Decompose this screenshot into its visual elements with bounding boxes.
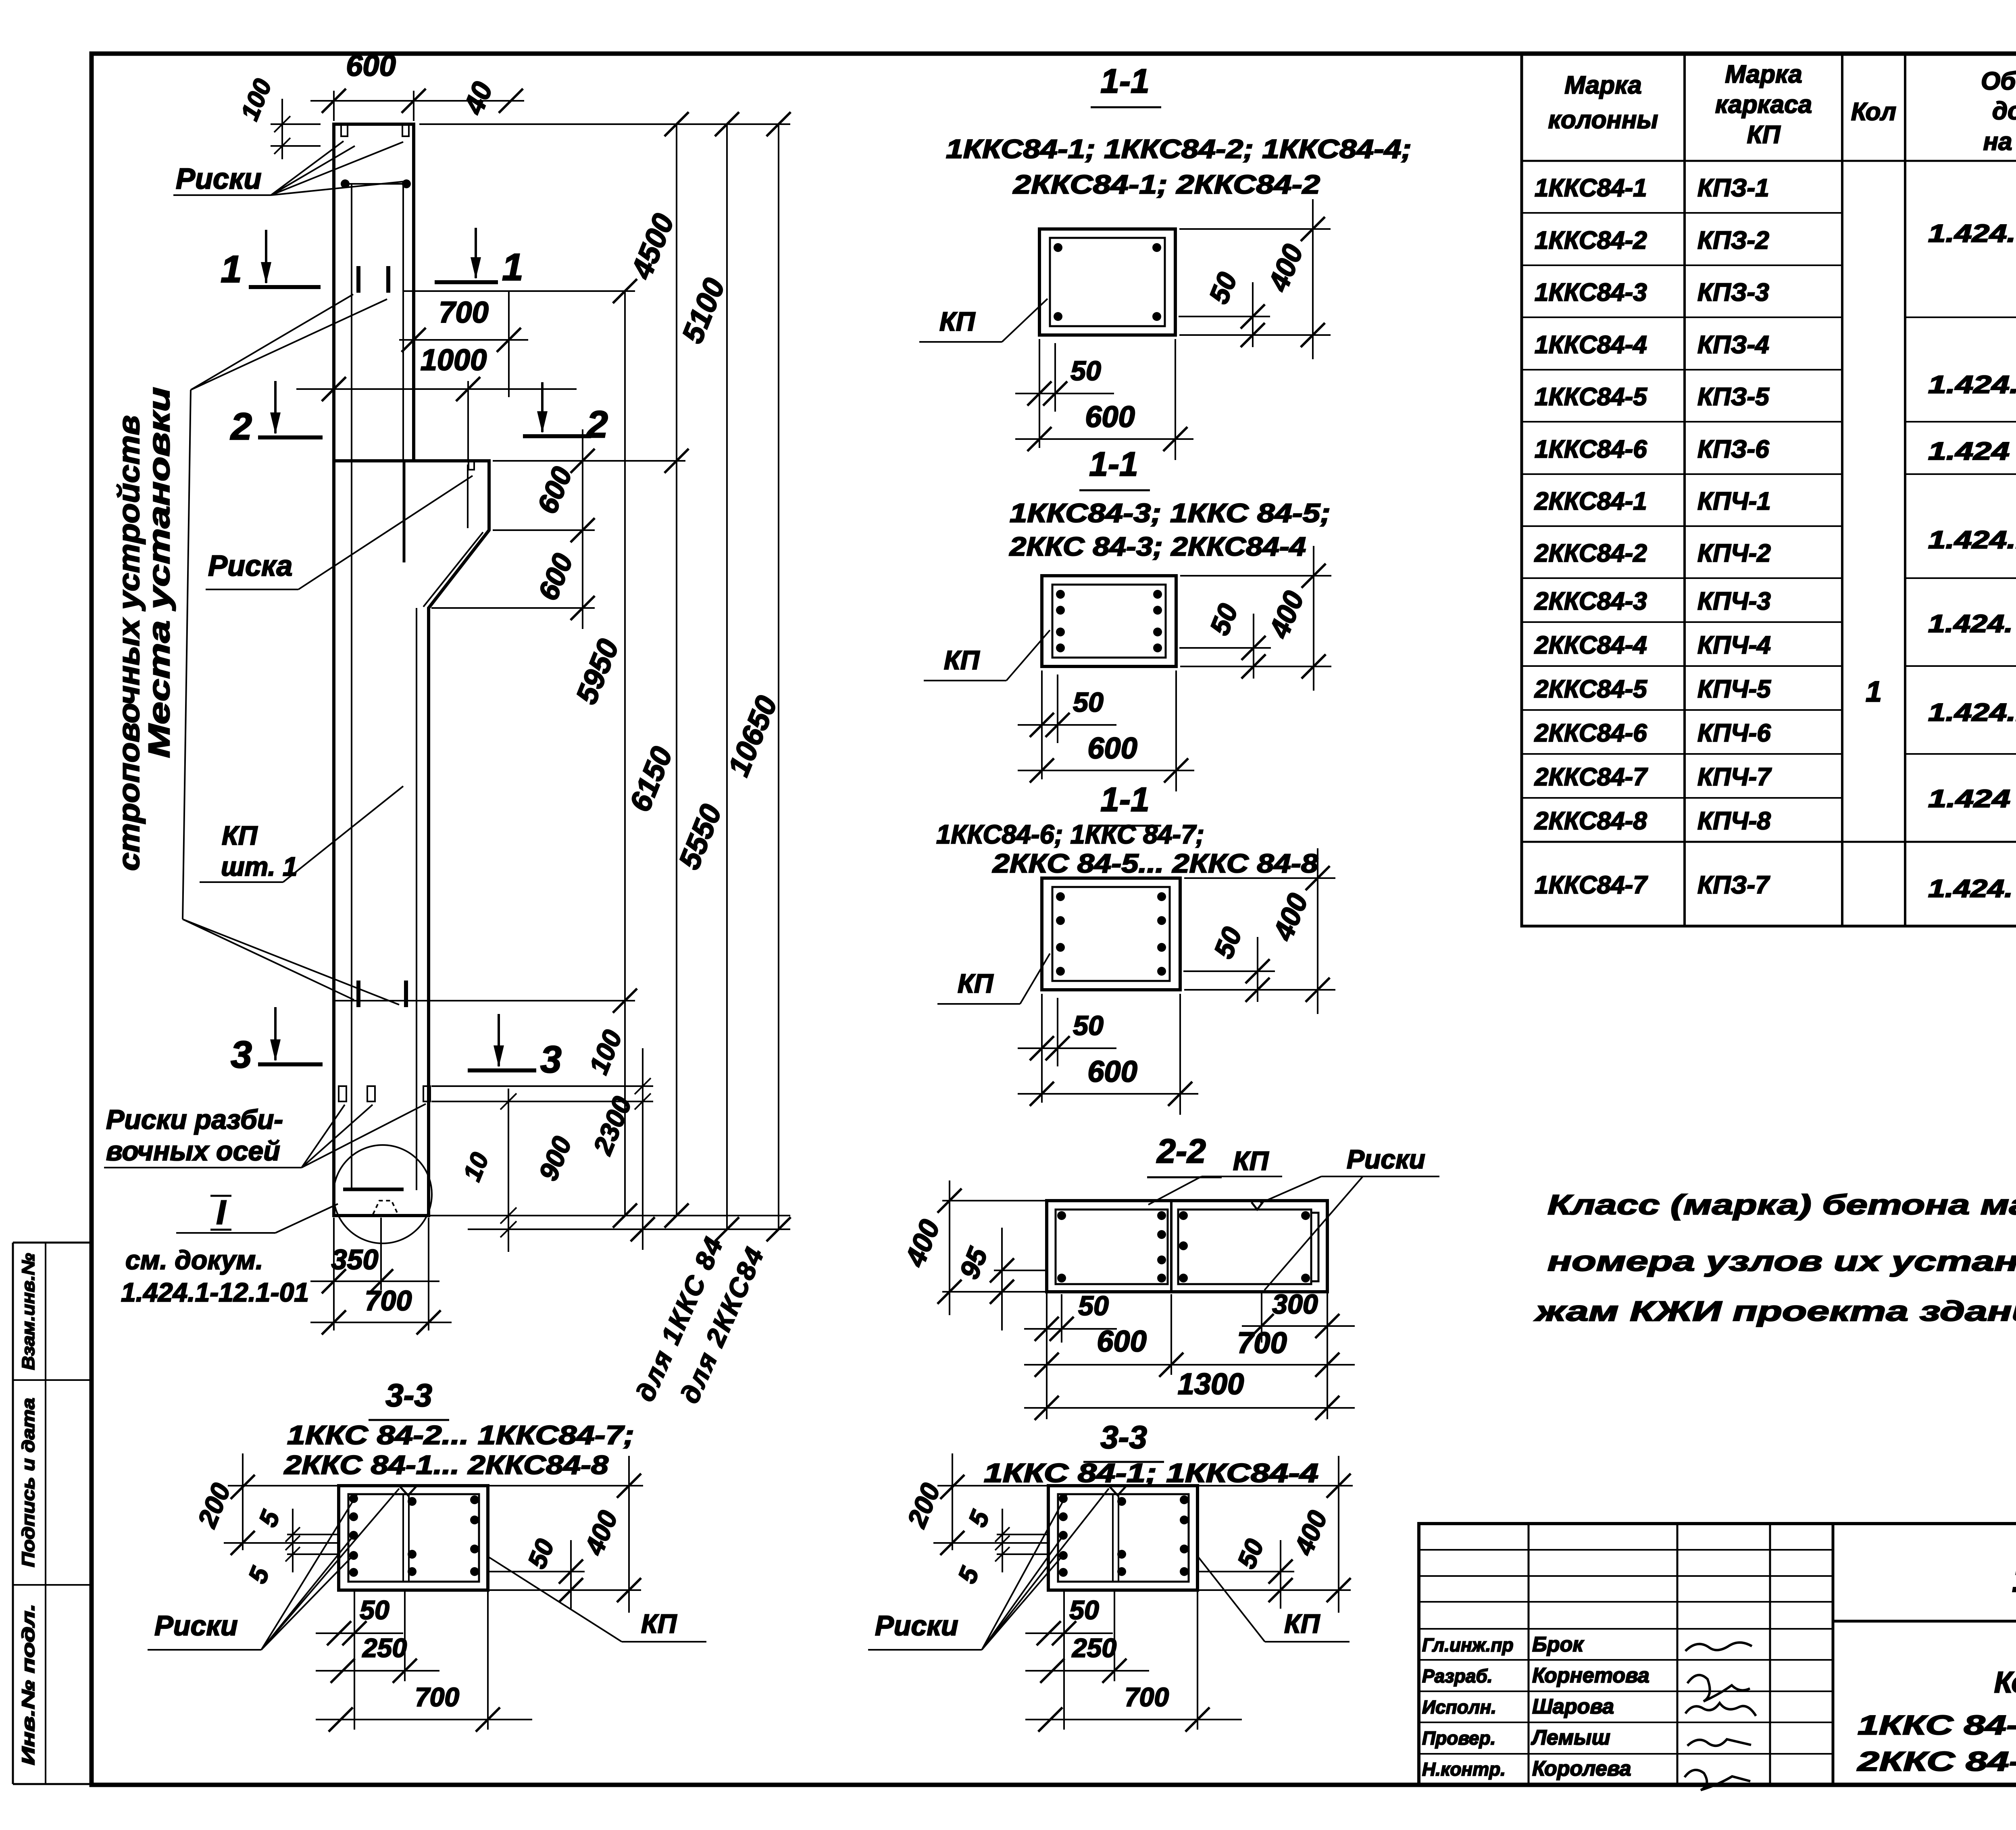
base risk mark 2	[367, 1086, 375, 1101]
svg-text:Разраб.: Разраб.	[1422, 1666, 1493, 1686]
section 2-2 dim 300 bottom	[1261, 1292, 1262, 1343]
console bottom reference line	[431, 607, 595, 609]
section 2-2 dim 1300	[1024, 1407, 1355, 1409]
section 3-3 #2 dim 700 bottom	[1197, 1590, 1198, 1730]
console inner vertical	[467, 464, 469, 528]
dim line 10650	[778, 124, 779, 1229]
section 2-2 stirrup right	[1178, 1210, 1311, 1284]
svg-text:Брок: Брок	[1532, 1633, 1584, 1656]
svg-text:1.424.1-12.1-01: 1.424.1-12.1-01	[121, 1277, 309, 1307]
svg-text:КП: КП	[222, 820, 258, 850]
dim 600 top	[333, 91, 335, 121]
svg-text:3: 3	[540, 1038, 562, 1081]
svg-text:50: 50	[1073, 1010, 1104, 1041]
section 1-1 #2 dim 50 right	[1179, 647, 1271, 649]
lifting mark lower right	[404, 981, 408, 1007]
svg-text:50: 50	[1073, 687, 1104, 718]
svg-text:1ККС 84-1; 1ККС84-4: 1ККС 84-1; 1ККС84-4	[984, 1458, 1318, 1488]
svg-text:1-1: 1-1	[1089, 445, 1138, 483]
section 1-1 #3 dim 400 right	[1184, 877, 1335, 879]
lifting level reference line	[403, 290, 635, 292]
section 3-3 #1 dim 50 bottom	[354, 1590, 355, 1730]
section 3-3 #2 stirrup	[1058, 1494, 1189, 1582]
svg-text:строповочных устройств: строповочных устройств	[112, 415, 146, 871]
section 3-3 #2 concrete outline	[1048, 1486, 1198, 1590]
svg-text:жам КЖИ проекта здания.: жам КЖИ проекта здания.	[1533, 1295, 2016, 1327]
section 1-1 #2 dim 600 bottom	[1175, 670, 1177, 791]
svg-text:1300: 1300	[1178, 1367, 1244, 1401]
section mark 2 right	[523, 434, 591, 438]
section 3-3 #2 dims 5 left	[1002, 1509, 1003, 1572]
section mark 3	[258, 1062, 323, 1066]
svg-text:номера узлов их установки: номера узлов их установки принимать по ч…	[1547, 1245, 2016, 1277]
svg-text:2ККС84-4: 2ККС84-4	[1534, 631, 1647, 659]
svg-text:1. 424 1 - 12. 1 - 04: 1. 424 1 - 12. 1 - 04	[2012, 1557, 2016, 1600]
section 1-1 #3 dim 50 bottom	[1041, 994, 1043, 1103]
top reference line	[419, 123, 790, 125]
section 1-1 #1 concrete outline	[1039, 229, 1175, 335]
svg-text:2ККС 84-1... 2ККС84-8: 2ККС 84-1... 2ККС84-8	[283, 1450, 609, 1480]
svg-text:КП: КП	[1747, 121, 1781, 149]
title block outline	[1419, 1524, 2016, 1785]
svg-text:700: 700	[415, 1682, 459, 1712]
svg-text:2ККС84-7: 2ККС84-7	[1534, 763, 1648, 791]
console risk mark	[469, 462, 474, 470]
svg-text:Корнетова: Корнетова	[1532, 1664, 1649, 1687]
svg-text:250: 250	[362, 1633, 407, 1663]
svg-text:Марка: Марка	[1725, 60, 1802, 88]
dim 100 top left	[271, 123, 321, 125]
svg-text:1.424. 1 - 12. 2 - 09: 1.424. 1 - 12. 2 - 09	[1928, 610, 2016, 638]
section 3-3 #1 dim 400 right	[489, 1485, 643, 1486]
leader riski top	[271, 141, 344, 195]
svg-text:КПЗ-4: КПЗ-4	[1697, 331, 1769, 359]
dim 900	[508, 1089, 509, 1252]
section 1-1 #2 rebar dots	[1056, 590, 1065, 599]
svg-text:Лемыш: Лемыш	[1531, 1726, 1610, 1749]
svg-text:2ККС84-3: 2ККС84-3	[1534, 587, 1647, 615]
specification table grid	[1522, 54, 2016, 926]
svg-text:300: 300	[1272, 1289, 1318, 1320]
section 3-3 #1 top corner notch	[399, 1486, 417, 1495]
section 2-2 stirrup left	[1056, 1210, 1168, 1284]
section 1-1 #2 dim 50 bottom	[1041, 670, 1043, 779]
inner line left	[351, 184, 352, 1190]
section 3-3 #1 riski leaders	[261, 1555, 353, 1650]
svg-text:1: 1	[502, 246, 523, 289]
section 1-1 #2 dim 400 right	[1180, 575, 1331, 577]
console top line	[334, 459, 489, 462]
section 1-1 #1 dim 50 right	[1179, 316, 1270, 317]
section 3-3 #1 dims 5 left	[292, 1509, 294, 1572]
section 2-2 middle division	[1170, 1201, 1173, 1292]
console corner reference line	[493, 529, 595, 531]
top risk line with anchors	[341, 183, 410, 185]
svg-text:50: 50	[1069, 1595, 1099, 1625]
section 1-1 #3 rebar dots	[1056, 892, 1065, 901]
section 2-2 right end bracket	[1311, 1213, 1318, 1281]
svg-text:3-3: 3-3	[1100, 1419, 1147, 1455]
section 3-3 #1 dim 250 bottom	[404, 1590, 406, 1681]
svg-text:1ККС 84-2... 1ККС84-7;: 1ККС 84-2... 1ККС84-7;	[287, 1420, 634, 1450]
section 2-2 rebar dots	[1057, 1211, 1066, 1220]
section 1-1 #2 stirrup	[1052, 585, 1166, 658]
svg-text:КПЗ-1: КПЗ-1	[1697, 174, 1769, 202]
section 3-3 #1 divider	[402, 1494, 404, 1582]
svg-text:2ККС 84-1... 2ККС84-8: 2ККС 84-1... 2ККС84-8	[1856, 1746, 2016, 1777]
svg-text:2ККС84-2: 2ККС84-2	[1534, 539, 1647, 567]
svg-text:1.424 1- 12. 2 - 11: 1.424 1- 12. 2 - 11	[1928, 785, 2016, 813]
svg-text:1ККС84-4: 1ККС84-4	[1535, 331, 1647, 359]
svg-text:2: 2	[230, 405, 252, 448]
section 2-2 dim 50 bottom	[1061, 1294, 1062, 1343]
leader detail I	[275, 1204, 338, 1233]
dim 1000	[296, 388, 577, 390]
section 3-3 #1 risk lines left	[287, 1534, 339, 1535]
console level reference line	[493, 460, 685, 462]
section 1-1 #1 rebar dots	[1054, 243, 1062, 252]
svg-text:КПЧ-6: КПЧ-6	[1697, 719, 1771, 747]
svg-text:КПЗ-6: КПЗ-6	[1697, 435, 1769, 463]
svg-text:шт. 1: шт. 1	[221, 852, 298, 881]
svg-text:1: 1	[221, 248, 242, 291]
bottom reference line 1KKS	[429, 1215, 790, 1216]
svg-text:700: 700	[1237, 1326, 1287, 1359]
title block verticals	[1528, 1524, 1530, 1785]
svg-text:600: 600	[1097, 1324, 1146, 1358]
svg-text:Риска: Риска	[208, 550, 292, 582]
svg-text:Н.контр.: Н.контр.	[1422, 1759, 1506, 1780]
svg-text:1ККС84-6; 1ККС 84-7;: 1ККС84-6; 1ККС 84-7;	[936, 819, 1204, 849]
dim 350 base	[380, 1218, 382, 1290]
svg-text:КПЧ-5: КПЧ-5	[1697, 675, 1771, 703]
section 3-3 #2 top corner notch	[1109, 1486, 1127, 1495]
svg-text:Риски: Риски	[1347, 1144, 1425, 1174]
svg-text:Риски: Риски	[176, 163, 262, 195]
inner line right console	[403, 461, 406, 562]
svg-text:вочных осей: вочных осей	[106, 1136, 280, 1166]
top risk mark left	[341, 125, 348, 136]
svg-text:Подпись и дата: Подпись и дата	[19, 1398, 38, 1567]
svg-text:250: 250	[1071, 1633, 1116, 1663]
lifting mark upper left	[356, 266, 360, 293]
svg-text:КПЗ-5: КПЗ-5	[1697, 383, 1770, 411]
svg-text:1.424.1 - 12. 2 - 10: 1.424.1 - 12. 2 - 10	[1928, 699, 2016, 727]
svg-text:1.424 1- 12. 2 - 07: 1.424 1- 12. 2 - 07	[1928, 437, 2016, 465]
svg-text:1ККС84-7: 1ККС84-7	[1535, 871, 1648, 899]
svg-text:КПЧ-3: КПЧ-3	[1697, 587, 1771, 615]
section 3-3 #1 rebar dots	[349, 1494, 358, 1503]
svg-text:Гл.инж.пр: Гл.инж.пр	[1422, 1634, 1514, 1655]
dim line 5100-5550	[726, 124, 728, 1229]
section 3-3 #2 risk lines left	[997, 1534, 1048, 1535]
svg-text:1000: 1000	[421, 343, 487, 377]
svg-text:Колонна: Колонна	[1994, 1666, 2016, 1699]
svg-text:Класс (марка) бетона марки з: Класс (марка) бетона марки закладных изд…	[1547, 1189, 2016, 1220]
svg-text:Риски: Риски	[154, 1610, 238, 1641]
svg-text:1ККС84-2: 1ККС84-2	[1535, 227, 1647, 254]
svg-text:1ККС84-3; 1ККС 84-5;: 1ККС84-3; 1ККС 84-5;	[1010, 498, 1331, 528]
svg-text:1.424. 1 - 12. 2 - 07: 1.424. 1 - 12. 2 - 07	[1928, 875, 2016, 903]
svg-text:700: 700	[365, 1285, 412, 1316]
svg-text:КП: КП	[958, 968, 994, 998]
section 3-3 #1 dim 200 left	[228, 1485, 339, 1486]
dim 100 right lower	[642, 1048, 644, 1250]
svg-text:КП: КП	[939, 306, 976, 336]
left margin strip box	[12, 1243, 14, 1784]
svg-text:Места установки: Места установки	[142, 387, 176, 758]
section 1-1 #3 dim 600 bottom	[1179, 994, 1181, 1115]
svg-text:50: 50	[360, 1595, 389, 1625]
section 1-1 #1 dim 400 right	[1179, 228, 1331, 230]
svg-text:1ККС 84-1... 1ККС84-7;: 1ККС 84-1... 1ККС84-7;	[1858, 1710, 2016, 1740]
svg-text:Кол: Кол	[1851, 98, 1896, 126]
svg-text:350: 350	[331, 1244, 379, 1275]
svg-text:КПЗ-7: КПЗ-7	[1697, 871, 1770, 899]
section 3-3 #1 dim 50 right	[489, 1571, 585, 1572]
bottom reference line 2KKS	[468, 1228, 790, 1230]
svg-text:КПЧ-1: КПЧ-1	[1697, 487, 1771, 515]
base fixture trapezoid	[373, 1201, 398, 1214]
leader KP sht.1	[283, 786, 403, 882]
section 3-3 #2 dim 250 bottom	[1114, 1590, 1115, 1681]
dim line 4500-6150	[676, 124, 677, 1216]
svg-text:1.424.1- 12. 2 - 06: 1.424.1- 12. 2 - 06	[1928, 371, 2016, 399]
svg-text:600: 600	[1085, 400, 1135, 433]
section 2-2 top notch risk	[1252, 1202, 1263, 1210]
base risk reference lines	[431, 1085, 653, 1087]
section 3-3 #2 dim 50 right	[1198, 1571, 1294, 1572]
svg-text:КПЗ-3: КПЗ-3	[1697, 279, 1769, 306]
svg-text:см. докум.: см. докум.	[125, 1245, 263, 1275]
leaders riski razbivochnyh osey	[302, 1105, 345, 1168]
svg-text:КПЧ-2: КПЧ-2	[1697, 539, 1771, 567]
section 3-3 #2 dim 200 left	[937, 1485, 1048, 1486]
top risk mark right	[402, 125, 409, 136]
svg-text:1.424. 1- 12. 2 - 05: 1.424. 1- 12. 2 - 05	[1928, 220, 2016, 248]
section 2-2 concrete outline	[1047, 1201, 1327, 1292]
section 1-1 #3 stirrup	[1052, 887, 1170, 981]
section 3-3 #2 rebar dots	[1059, 1494, 1068, 1503]
svg-text:1.424.1 - 12. 2 - 08: 1.424.1 - 12. 2 - 08	[1928, 526, 2016, 554]
section mark 1	[249, 285, 321, 289]
svg-text:700: 700	[439, 296, 488, 329]
section 3-3 #2 divider	[1112, 1494, 1114, 1582]
section mark 2	[258, 435, 323, 439]
svg-text:2ККС84-6: 2ККС84-6	[1534, 719, 1647, 747]
svg-text:1ККС84-3: 1ККС84-3	[1535, 279, 1647, 306]
svg-text:Шарова: Шарова	[1532, 1695, 1614, 1718]
svg-text:КПЗ-2: КПЗ-2	[1697, 227, 1769, 254]
svg-text:2ККС 84-5... 2ККС 84-8: 2ККС 84-5... 2ККС 84-8	[992, 848, 1318, 878]
svg-text:3: 3	[231, 1033, 252, 1076]
dim line 5950	[624, 291, 626, 1216]
lifting mark lower left	[356, 981, 360, 1007]
section mark 1 right	[435, 280, 498, 284]
svg-text:КПЧ-7: КПЧ-7	[1697, 763, 1772, 791]
section 1-1 #3 concrete outline	[1042, 878, 1180, 990]
svg-text:КП: КП	[1233, 1146, 1269, 1176]
svg-text:КП: КП	[641, 1609, 677, 1638]
bracket mesta ustanovki	[183, 390, 191, 919]
section 3-3 #2 dim 50 bottom	[1063, 1590, 1065, 1730]
svg-text:I: I	[216, 1193, 226, 1231]
svg-text:Риски: Риски	[875, 1610, 958, 1641]
svg-text:КПЧ-8: КПЧ-8	[1697, 807, 1771, 835]
detail circle I	[333, 1145, 432, 1243]
svg-text:50: 50	[1070, 356, 1101, 386]
section 1-1 #1 dim 600 bottom	[1175, 339, 1176, 460]
section 1-1 #1 dim 50 bottom	[1039, 339, 1040, 448]
section 2-2 dim 95 left	[994, 1270, 1047, 1271]
svg-text:Королева: Королева	[1532, 1757, 1631, 1780]
dim 600 console upper	[582, 429, 583, 629]
svg-text:КПЧ-4: КПЧ-4	[1697, 631, 1771, 659]
svg-text:2ККС84-1: 2ККС84-1	[1534, 487, 1647, 515]
svg-text:колонны: колонны	[1548, 106, 1658, 134]
column elevation outline	[334, 124, 489, 1216]
section mark 3 right	[468, 1068, 536, 1072]
svg-text:1ККС84-6: 1ККС84-6	[1535, 435, 1647, 463]
console inner chamfer	[423, 532, 483, 607]
svg-text:1: 1	[1866, 676, 1882, 708]
section 3-3 #1 dim 700 bottom	[487, 1590, 489, 1730]
section 1-1 #2 concrete outline	[1042, 576, 1176, 666]
svg-text:1ККС84-5: 1ККС84-5	[1535, 383, 1647, 411]
svg-text:Взам.инв.№: Взам.инв.№	[19, 1253, 38, 1370]
section 1-1 #1 stirrup	[1050, 238, 1165, 326]
section 2-2 dim 600-700	[1046, 1292, 1048, 1419]
svg-text:Риски разби-: Риски разби-	[106, 1104, 283, 1135]
base risk mark 1	[339, 1086, 346, 1101]
svg-text:каркаса: каркаса	[1715, 91, 1812, 119]
svg-text:1ККС84-1: 1ККС84-1	[1535, 174, 1647, 202]
svg-text:600: 600	[346, 49, 396, 82]
svg-text:документа: документа	[1992, 97, 2016, 125]
base risk mark 3	[423, 1086, 430, 1101]
leader riska	[298, 476, 473, 589]
base anchor line	[343, 1188, 404, 1191]
title signatures	[1685, 1643, 1752, 1651]
svg-text:700: 700	[1125, 1682, 1169, 1712]
svg-text:Исполн.: Исполн.	[1422, 1697, 1496, 1718]
svg-text:600: 600	[1087, 731, 1137, 765]
svg-text:1-1: 1-1	[1100, 62, 1149, 100]
section 2-2 dim 400 left	[942, 1200, 1047, 1201]
svg-text:КП: КП	[1284, 1609, 1320, 1638]
section 3-3 #1 concrete outline	[339, 1486, 488, 1590]
svg-text:2-2: 2-2	[1156, 1132, 1206, 1170]
section 3-3 #1 stirrup	[348, 1494, 479, 1582]
svg-text:2: 2	[586, 403, 608, 446]
svg-text:2ККС84-1; 2ККС84-2: 2ККС84-1; 2ККС84-2	[1012, 169, 1320, 199]
title block horizontals	[1419, 1549, 1833, 1551]
dim 700 base	[333, 1218, 335, 1330]
svg-text:Обозначение: Обозначение	[1981, 67, 2016, 95]
svg-text:2ККС84-5: 2ККС84-5	[1534, 675, 1647, 703]
lifting mark upper right	[386, 266, 390, 293]
svg-text:Инв.№ подл.: Инв.№ подл.	[19, 1604, 38, 1765]
svg-text:3-3: 3-3	[385, 1377, 432, 1413]
svg-text:2ККС 84-3; 2ККС84-4: 2ККС 84-3; 2ККС84-4	[1009, 531, 1306, 561]
inner line right upper	[402, 184, 404, 461]
svg-text:на каркас КП: на каркас КП	[1983, 128, 2016, 156]
svg-text:Марка: Марка	[1564, 71, 1641, 99]
svg-text:2ККС84-8: 2ККС84-8	[1534, 807, 1647, 835]
section 3-3 #2 riski leaders	[982, 1555, 1063, 1650]
section 1-1 #3 dim 50 right	[1183, 970, 1275, 972]
svg-text:1-1: 1-1	[1100, 781, 1149, 818]
lower lifting reference line	[335, 1000, 635, 1001]
dim 700 upper	[399, 339, 528, 341]
section 3-3 #2 dim 400 right	[1198, 1485, 1353, 1486]
svg-text:600: 600	[1087, 1055, 1137, 1088]
svg-text:КП: КП	[944, 645, 980, 675]
inner line right lower	[416, 608, 417, 1190]
svg-text:Провер.: Провер.	[1422, 1728, 1495, 1749]
svg-text:50: 50	[1078, 1291, 1109, 1321]
svg-text:1ККС84-1; 1ККС84-2; 1ККС84-4;: 1ККС84-1; 1ККС84-2; 1ККС84-4;	[946, 134, 1412, 164]
